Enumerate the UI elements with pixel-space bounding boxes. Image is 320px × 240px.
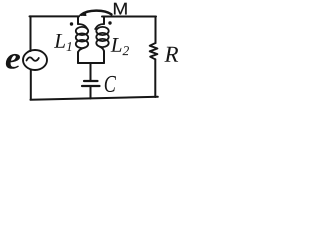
inductor L1 entry curve bbox=[78, 24, 87, 29]
label R bbox=[164, 47, 178, 62]
wire left rail lower bbox=[30, 70, 32, 100]
capacitor C bottom plate bbox=[82, 85, 100, 87]
label e bbox=[6, 54, 20, 69]
inductor L1 top stub bbox=[77, 17, 79, 25]
mutual inductance arc bbox=[81, 11, 112, 15]
source e (AC) circle bbox=[23, 50, 47, 70]
label L2 bbox=[111, 38, 122, 52]
wire top-right rail bbox=[102, 16, 156, 18]
wire capacitor top lead bbox=[90, 63, 92, 80]
inductor L1 exit curve bbox=[78, 48, 85, 54]
inductor L1 loop 1 bbox=[76, 27, 88, 35]
inductor L2 exit curve bbox=[100, 47, 105, 53]
wire bottom rail bbox=[31, 97, 158, 100]
wire right rail upper bbox=[155, 17, 157, 44]
source sine symbol bbox=[27, 57, 39, 60]
wire bottom middle link bbox=[78, 62, 104, 64]
inductor L1 loop 2 bbox=[76, 33, 88, 41]
wire L2 bottom bbox=[103, 51, 105, 63]
resistor R zigzag bbox=[150, 43, 158, 59]
label L1 bbox=[54, 34, 65, 48]
label C bbox=[105, 76, 116, 92]
polarity dot L1 bbox=[70, 22, 73, 25]
capacitor C top plate bbox=[84, 80, 98, 82]
wire L1 bottom bbox=[77, 52, 79, 63]
wire capacitor bottom lead bbox=[90, 87, 92, 99]
inductor L1 loop 3 bbox=[76, 40, 88, 48]
inductor L2 top stub bbox=[103, 17, 105, 25]
mutual inductance arrowhead bbox=[79, 12, 86, 15]
inductor L2 loop 1 bbox=[96, 27, 108, 35]
inductor L2 entry curve bbox=[95, 24, 104, 29]
wire top-left rail bbox=[30, 15, 80, 17]
inductor L2 loop 2 bbox=[96, 33, 108, 41]
label M bbox=[114, 3, 127, 15]
wire right rail lower bbox=[154, 59, 156, 97]
polarity dot L2 bbox=[108, 21, 111, 24]
wire left rail upper bbox=[30, 16, 32, 51]
inductor L2 loop 3 bbox=[96, 39, 108, 47]
